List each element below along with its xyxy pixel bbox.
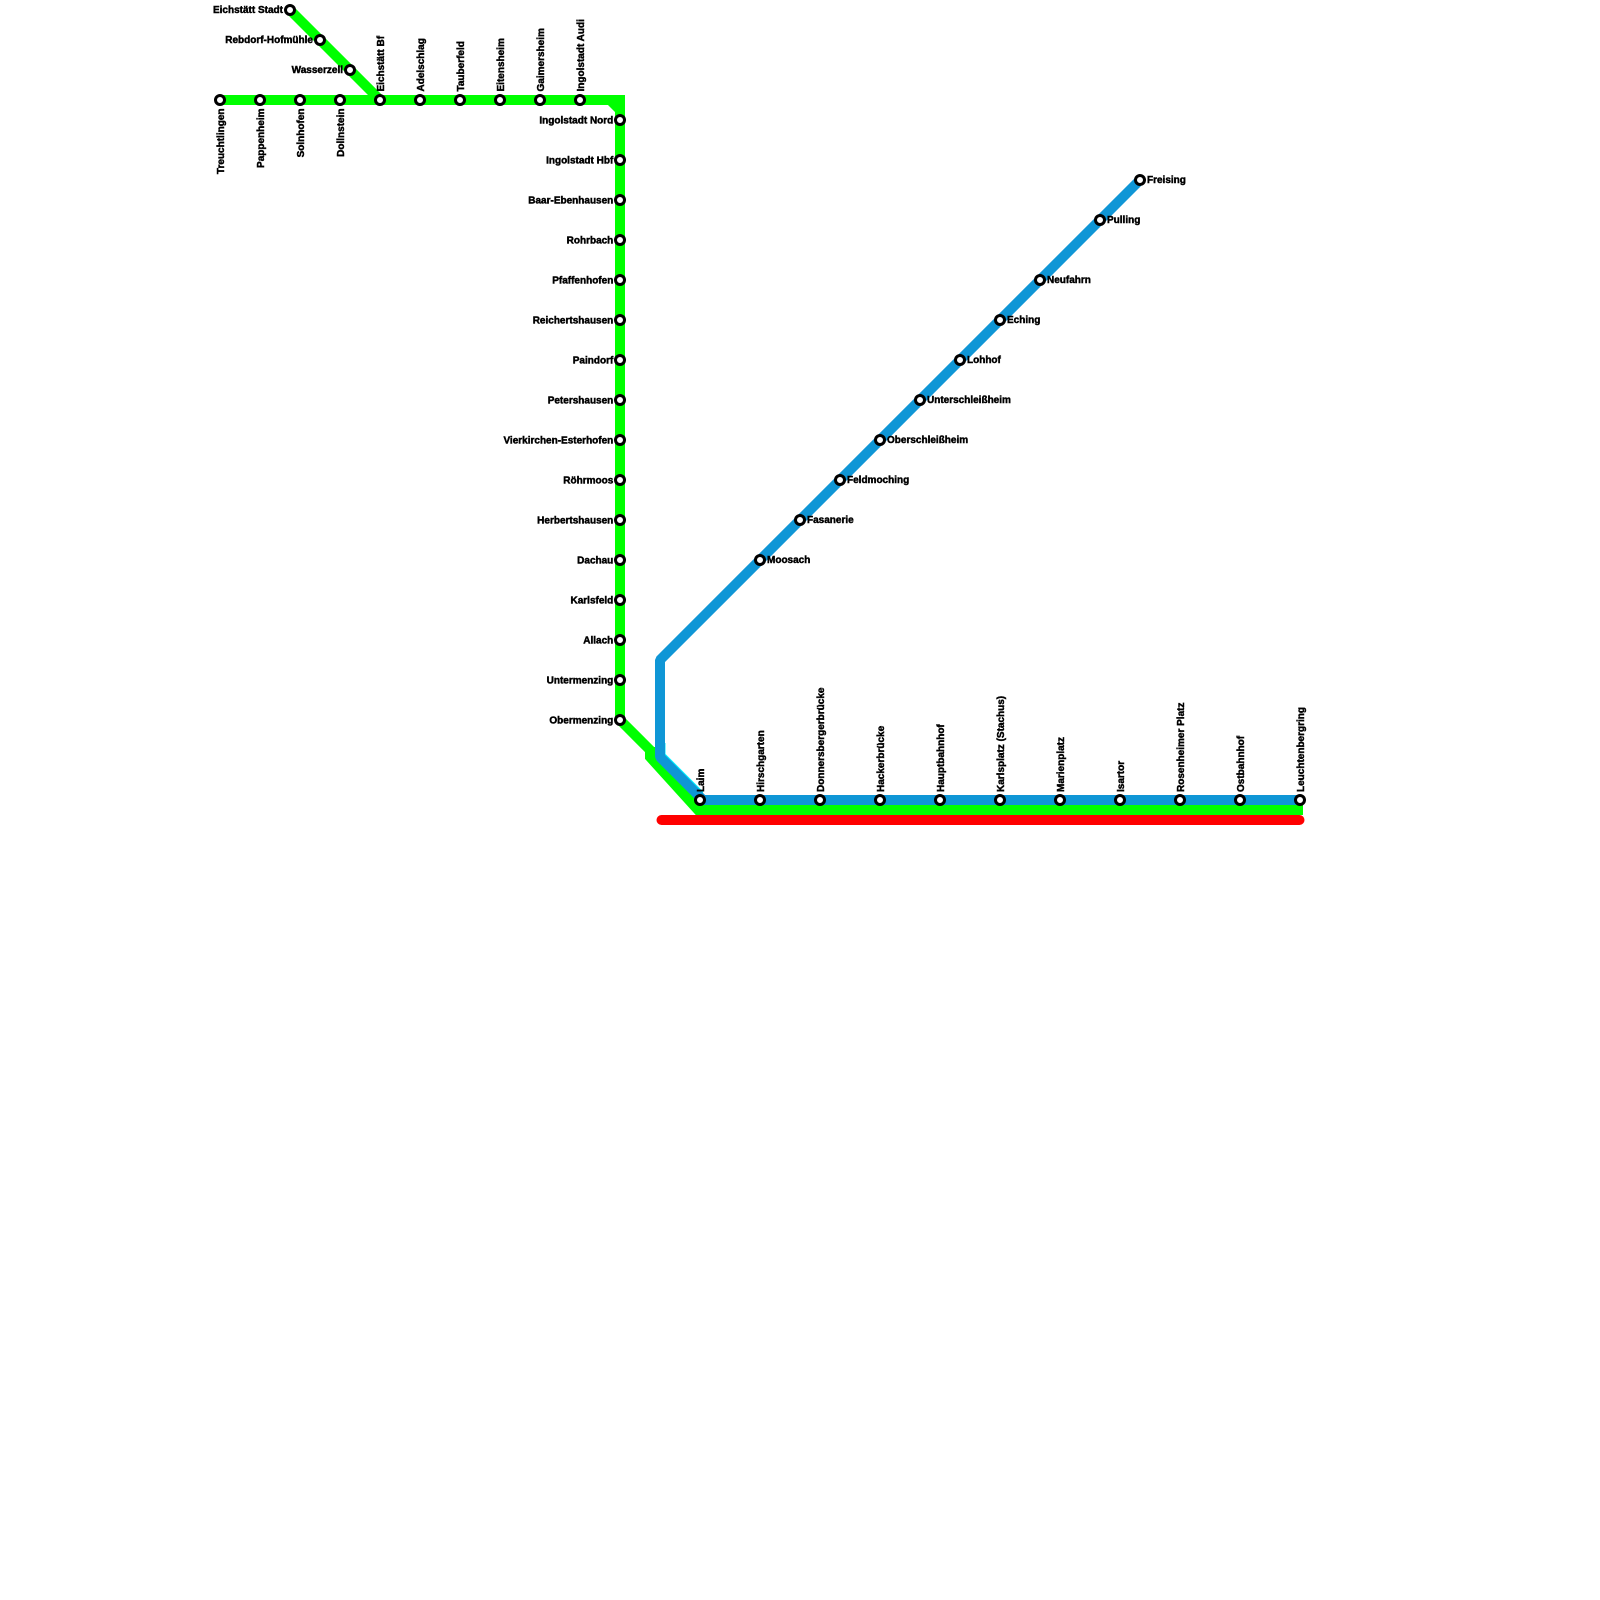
svg-text:Pulling: Pulling — [1107, 215, 1140, 226]
station Eitensheim — [496, 96, 505, 105]
station Ostbahnhof — [1236, 796, 1245, 805]
svg-text:Eichstätt Bf: Eichstätt Bf — [376, 35, 387, 91]
station Herbertshausen — [616, 516, 625, 525]
svg-text:Dachau: Dachau — [577, 555, 613, 566]
svg-text:Gaimersheim: Gaimersheim — [536, 28, 547, 91]
green line branch Eichstaett — [290, 10, 380, 100]
station Karlsplatz — [996, 796, 1005, 805]
station Isartor — [1116, 796, 1125, 805]
green corner chamfer at Ingolstadt — [610, 100, 620, 110]
station Dollnstein — [336, 96, 345, 105]
station Petershausen — [616, 396, 625, 405]
svg-text:Isartor: Isartor — [1116, 761, 1127, 792]
station Ingolstadt Hbf — [616, 156, 625, 165]
svg-text:Moosach: Moosach — [767, 555, 810, 566]
svg-text:Ostbahnhof: Ostbahnhof — [1236, 735, 1247, 792]
station Adelschlag — [416, 96, 425, 105]
station Fasanerie — [796, 516, 805, 525]
station Rebdorf-Hofmuehle — [316, 36, 325, 45]
svg-text:Hirschgarten: Hirschgarten — [756, 730, 767, 792]
svg-text:Reichertshausen: Reichertshausen — [533, 315, 614, 326]
svg-text:Tauberfeld: Tauberfeld — [456, 41, 467, 91]
svg-text:Vierkirchen-Esterhofen: Vierkirchen-Esterhofen — [503, 435, 613, 446]
station Pfaffenhofen — [616, 276, 625, 285]
svg-text:Laim: Laim — [696, 769, 707, 792]
station Gaimersheim — [536, 96, 545, 105]
station Hackerbruecke — [876, 796, 885, 805]
svg-text:Allach: Allach — [583, 635, 613, 646]
station Tauberfeld — [456, 96, 465, 105]
station Karlsfeld — [616, 596, 625, 605]
svg-text:Rohrbach: Rohrbach — [567, 235, 614, 246]
station Leuchtenbergring — [1296, 796, 1305, 805]
cyan line under blue near Laim — [661, 743, 704, 795]
station Rohrbach — [616, 236, 625, 245]
svg-text:Treuchtlingen: Treuchtlingen — [216, 109, 227, 175]
red line — [662, 815, 1300, 825]
station Paindorf — [616, 356, 625, 365]
station Pulling — [1096, 216, 1105, 225]
svg-text:Solnhofen: Solnhofen — [296, 109, 307, 158]
station Rosenheimer Platz — [1176, 796, 1185, 805]
station Oberschleissheim — [876, 436, 885, 445]
station Wasserzell — [346, 66, 355, 75]
station Treuchtlingen — [216, 96, 225, 105]
svg-text:Neufahrn: Neufahrn — [1047, 275, 1091, 286]
station Moosach — [756, 556, 765, 565]
svg-text:Rebdorf-Hofmühle: Rebdorf-Hofmühle — [225, 35, 313, 46]
svg-text:Ingolstadt Nord: Ingolstadt Nord — [539, 115, 613, 126]
svg-text:Fasanerie: Fasanerie — [807, 515, 854, 526]
svg-text:Oberschleißheim: Oberschleißheim — [887, 435, 968, 446]
station Lohhof — [956, 356, 965, 365]
svg-text:Unterschleißheim: Unterschleißheim — [927, 395, 1011, 406]
svg-text:Leuchtenbergring: Leuchtenbergring — [1296, 707, 1307, 792]
station Ingolstadt Nord — [616, 116, 625, 125]
station Eichstaett Stadt — [286, 6, 295, 15]
svg-text:Adelschlag: Adelschlag — [416, 38, 427, 91]
station Dachau — [616, 556, 625, 565]
station Hauptbahnhof — [936, 796, 945, 805]
svg-text:Rosenheimer Platz: Rosenheimer Platz — [1176, 703, 1187, 792]
station Ingolstadt Audi — [576, 96, 585, 105]
svg-text:Ingolstadt Audi: Ingolstadt Audi — [576, 19, 587, 92]
svg-text:Ingolstadt Hbf: Ingolstadt Hbf — [546, 155, 614, 166]
svg-text:Baar-Ebenhausen: Baar-Ebenhausen — [528, 195, 613, 206]
svg-text:Röhrmoos: Röhrmoos — [563, 475, 613, 486]
svg-text:Hauptbahnhof: Hauptbahnhof — [936, 724, 947, 792]
green edge Obermenzing-Laim — [620, 720, 700, 800]
station Freising — [1136, 176, 1145, 185]
station Hirschgarten — [756, 796, 765, 805]
station Solnhofen — [296, 96, 305, 105]
svg-text:Herbertshausen: Herbertshausen — [537, 515, 613, 526]
svg-text:Untermenzing: Untermenzing — [547, 675, 614, 686]
station Neufahrn — [1036, 276, 1045, 285]
svg-text:Paindorf: Paindorf — [573, 355, 614, 366]
station Untermenzing — [616, 676, 625, 685]
svg-text:Eching: Eching — [1007, 315, 1040, 326]
station Eichstaett Bf — [376, 96, 385, 105]
station Donnersbergerbruecke — [816, 796, 825, 805]
svg-text:Lohhof: Lohhof — [967, 355, 1002, 366]
svg-text:Pfaffenhofen: Pfaffenhofen — [552, 275, 613, 286]
station Pappenheim — [256, 96, 265, 105]
svg-text:Karlsplatz (Stachus): Karlsplatz (Stachus) — [996, 696, 1007, 792]
station Unterschleissheim — [916, 396, 925, 405]
svg-text:Hackerbrücke: Hackerbrücke — [876, 725, 887, 792]
green line main — [220, 100, 620, 720]
svg-text:Dollnstein: Dollnstein — [336, 109, 347, 157]
svg-text:Marienplatz: Marienplatz — [1056, 737, 1067, 792]
station Baar-Ebenhausen — [616, 196, 625, 205]
station Roehrmoos — [616, 476, 625, 485]
station Allach — [616, 636, 625, 645]
station Feldmoching — [836, 476, 845, 485]
station Laim — [696, 796, 705, 805]
svg-text:Wasserzell: Wasserzell — [292, 65, 344, 76]
station Marienplatz — [1056, 796, 1065, 805]
svg-text:Eitensheim: Eitensheim — [496, 38, 507, 91]
svg-text:Feldmoching: Feldmoching — [847, 475, 909, 486]
svg-text:Petershausen: Petershausen — [548, 395, 614, 406]
svg-text:Karlsfeld: Karlsfeld — [571, 595, 614, 606]
svg-text:Obermenzing: Obermenzing — [549, 715, 613, 726]
svg-text:Eichstätt Stadt: Eichstätt Stadt — [213, 5, 284, 16]
svg-text:Pappenheim: Pappenheim — [256, 108, 267, 168]
station Vierkirchen-Esterhofen — [616, 436, 625, 445]
station Reichertshausen — [616, 316, 625, 325]
svg-text:Freising: Freising — [1147, 175, 1186, 186]
station Eching — [996, 316, 1005, 325]
green edge to Laim rail (lower strand) — [650, 747, 1303, 810]
blue line Freising-Leuchtenbergring — [660, 180, 1300, 800]
svg-text:Donnersbergerbrücke: Donnersbergerbrücke — [816, 687, 827, 792]
station Obermenzing — [616, 716, 625, 725]
